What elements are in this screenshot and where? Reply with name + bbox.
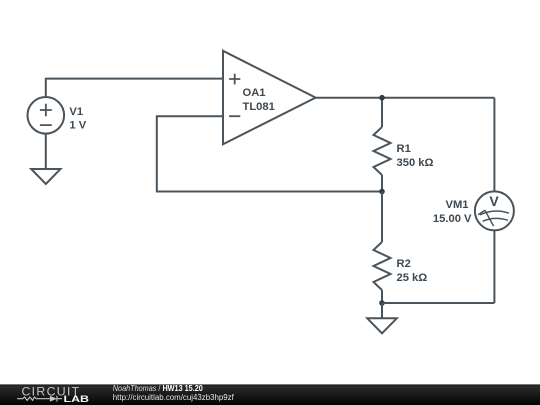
node: op-amp output junction — [379, 95, 385, 101]
voltmeter needle tick — [478, 210, 485, 215]
svg-text:NoahThomas / HW13 15.20: NoahThomas / HW13 15.20 — [113, 384, 203, 393]
svg-text:OA1: OA1 — [243, 87, 266, 99]
ground under R2 — [367, 318, 397, 333]
svg-text:R2: R2 — [397, 258, 411, 270]
svg-text:25 kΩ: 25 kΩ — [397, 272, 428, 284]
wire: output node down to R1 — [381, 98, 383, 127]
resistor R2 zigzag — [374, 242, 391, 290]
op-amp plus input marker — [229, 74, 240, 85]
svg-text:1 V: 1 V — [69, 119, 86, 131]
wire: V1 positive terminal up and right to op-amp non-inverting input — [46, 79, 223, 97]
svg-text:V1: V1 — [69, 106, 83, 118]
svg-text:TL081: TL081 — [243, 101, 275, 113]
voltmeter VM1 body — [475, 191, 514, 230]
voltmeter needle — [485, 210, 494, 226]
CircuitLab logo wire-resistor-diode motif — [17, 396, 62, 402]
svg-text:http://circuitlab.com/cuj43zb3: http://circuitlab.com/cuj43zb3hp9zf — [113, 393, 235, 402]
svg-text:VM1: VM1 — [445, 199, 468, 211]
voltage source V1 — [28, 97, 65, 134]
wire: right rail down to voltmeter top — [493, 98, 495, 192]
svg-text:V: V — [489, 193, 499, 209]
node: R1/R2 feedback junction — [379, 189, 385, 195]
svg-text:350 kΩ: 350 kΩ — [397, 157, 434, 169]
svg-text:LAB: LAB — [64, 394, 90, 404]
op-amp OA1 triangle body — [223, 51, 316, 145]
wire: op-amp output to right rail — [316, 97, 495, 99]
op-amp minus input marker — [229, 115, 240, 117]
wire: voltmeter bottom to bottom rail — [493, 230, 495, 303]
wire: feedback from inverting input left, down, right to R1/R2 node — [157, 116, 382, 191]
wire: junction down to R2 — [381, 192, 383, 243]
node: R2/voltmeter/ground junction — [379, 300, 385, 306]
resistor R1 zigzag — [374, 127, 391, 175]
voltmeter gauge lower arc — [483, 218, 508, 221]
wire: R1 bottom lead — [381, 175, 383, 192]
wire: V1 negative terminal to ground — [45, 134, 47, 169]
wire: bottom rail to voltmeter — [382, 302, 494, 304]
wire: junction down to ground — [381, 303, 383, 318]
voltmeter gauge upper arc — [480, 211, 509, 215]
svg-text:R1: R1 — [397, 143, 411, 155]
svg-text:15.00 V: 15.00 V — [433, 213, 472, 225]
ground under V1 — [31, 169, 60, 184]
footer bar — [0, 384, 540, 405]
wire: R2 bottom lead to ground node — [381, 290, 383, 303]
